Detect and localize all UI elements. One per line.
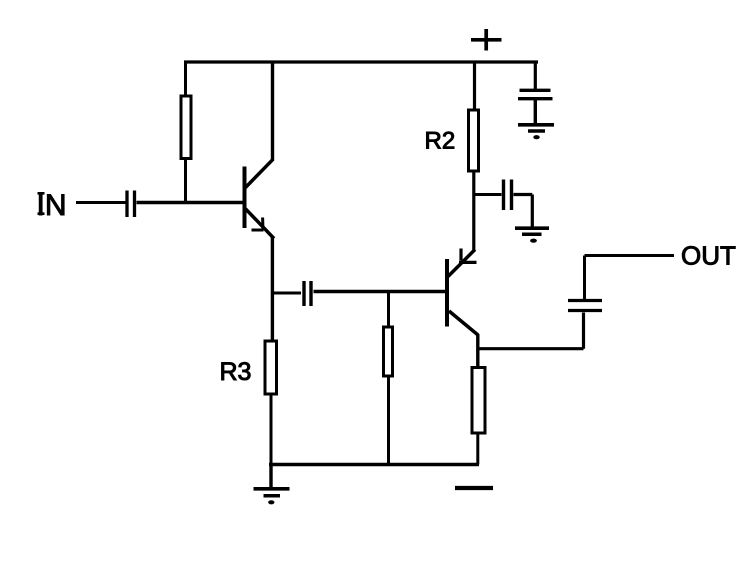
wire IN lead (76, 201, 126, 204)
wire Q2 collector down (476, 334, 479, 368)
wire rail end to C5 (534, 61, 537, 90)
wire emitter branch to C2 (272, 292, 301, 295)
wire C5 to ground G1 (534, 100, 537, 123)
svg-text:R3: R3 (220, 358, 252, 386)
resistor R4 (bias) (384, 327, 393, 376)
transistor Q1 (NPN) (245, 160, 275, 239)
wire branch to C3 (474, 193, 502, 196)
wire R3 bottom stem (270, 394, 273, 465)
ground G2 (515, 228, 549, 243)
capacitor C1 (input coupling) (127, 191, 135, 218)
wire R2 top stem (473, 61, 476, 111)
label + (supply plus) (471, 29, 502, 51)
label IN (37, 189, 67, 222)
wire Q1 emitter down (271, 237, 274, 342)
transistor Q2 (PNP) (447, 249, 478, 336)
wire R5 bottom stem (476, 432, 479, 465)
wire output branch to C4 (478, 313, 584, 349)
ground G3 (bottom left) (254, 464, 290, 504)
resistor R2 (469, 110, 479, 171)
ground G1 (518, 125, 554, 139)
resistor R5 (output load) (472, 368, 485, 434)
wire C1 to Q1 base (137, 201, 245, 204)
wire R1 bottom stem (184, 158, 187, 203)
wire C3 to ground G2 (514, 195, 533, 227)
wire top supply rail (184, 60, 538, 63)
wire C2 to Q2 base (314, 290, 446, 293)
svg-text:R2: R2 (425, 128, 456, 155)
wire R1 top stem (184, 61, 187, 98)
capacitor C4 (output coupling) (568, 301, 602, 311)
resistor R1 (181, 96, 191, 159)
capacitor C2 (interstage coupling) (304, 281, 311, 306)
wire bias resistor top stem (387, 292, 390, 329)
capacitor C5 (supply bypass) (518, 90, 553, 98)
wire bias resistor bottom stem (387, 376, 390, 465)
wire bottom rail (269, 463, 479, 467)
label - (supply minus) (455, 486, 493, 490)
wire R2 bottom stem to Q2 emitter (472, 171, 475, 251)
wire Q1 collector to rail (271, 61, 274, 162)
resistor R3 (265, 341, 277, 394)
capacitor C3 (emitter bypass) (504, 180, 512, 211)
wire C4 to OUT (585, 256, 675, 300)
svg-text:OUT: OUT (681, 240, 736, 270)
